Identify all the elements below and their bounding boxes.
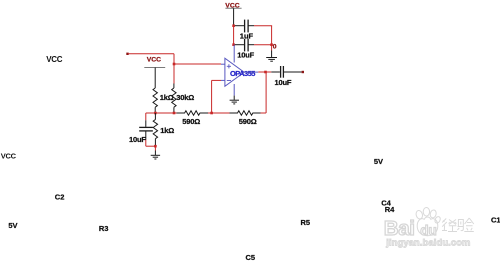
svg-text:5V: 5V [374,157,383,166]
svg-text:jingyan.baidu.com: jingyan.baidu.com [385,238,470,248]
svg-text:R3: R3 [99,224,109,233]
svg-text:1uF: 1uF [240,32,254,41]
svg-text:VCC: VCC [46,55,63,64]
svg-text:1kΩ: 1kΩ [160,93,174,102]
svg-text:R4: R4 [385,205,395,214]
svg-text:C5: C5 [246,253,256,261]
svg-text:VCC: VCC [147,56,161,63]
svg-text:30kΩ: 30kΩ [176,93,194,102]
svg-text:R5: R5 [301,218,311,227]
svg-text:VCC: VCC [1,151,17,160]
svg-text:10uF: 10uF [275,78,292,87]
svg-text:10uF: 10uF [237,50,254,59]
svg-text:590Ω: 590Ω [239,117,257,126]
svg-text:590Ω: 590Ω [182,117,200,126]
svg-text:5V: 5V [8,221,17,230]
svg-text:1kΩ: 1kΩ [160,126,174,135]
svg-text:du: du [420,223,437,238]
svg-text:0: 0 [273,43,277,50]
svg-text:C2: C2 [55,193,65,202]
svg-text:OPA355: OPA355 [230,69,255,78]
svg-text:10uF: 10uF [129,135,146,144]
svg-text:C1: C1 [491,216,500,225]
